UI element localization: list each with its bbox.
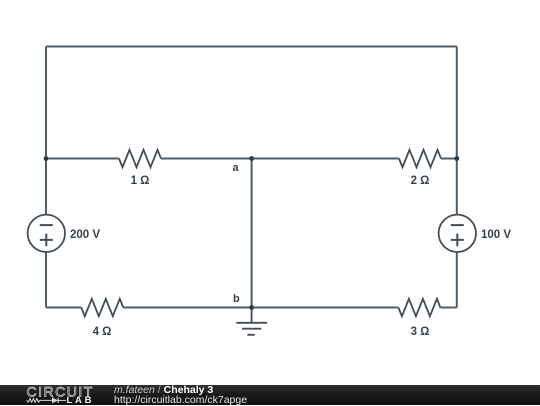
V2 plus sign	[451, 234, 464, 247]
svg-text:1 Ω: 1 Ω	[131, 175, 150, 187]
svg-text:4 Ω: 4 Ω	[93, 326, 112, 338]
wire bottom-right segment	[440, 307, 456, 309]
V2 minus sign	[451, 224, 464, 226]
resistor R2 2 Ohm	[399, 150, 441, 167]
wire right vertical lower	[456, 252, 458, 308]
CircuitLab logo resistor-diode symbol	[27, 398, 67, 403]
wire left vertical upper	[45, 47, 47, 215]
voltage source V1 circle	[28, 215, 65, 252]
junction dot right-middle	[454, 156, 459, 161]
svg-text:2 Ω: 2 Ω	[411, 175, 430, 187]
svg-text:200 V: 200 V	[70, 229, 100, 241]
ground symbol	[236, 308, 267, 335]
wire center vertical node a to node b	[251, 159, 253, 308]
wire left vertical lower	[45, 252, 47, 308]
resistor R1 1 Ohm	[119, 150, 161, 167]
V1 minus sign	[40, 224, 53, 226]
resistor R3 3 Ohm	[398, 299, 440, 316]
junction dot node b	[249, 305, 254, 310]
svg-text:a: a	[233, 162, 240, 174]
wire middle-left segment	[46, 158, 119, 160]
wire bottom-center segment	[123, 307, 398, 309]
svg-text:b: b	[233, 293, 240, 305]
wire right vertical upper	[456, 47, 458, 215]
voltage source V2 circle	[439, 215, 476, 252]
svg-text:3 Ω: 3 Ω	[411, 326, 430, 338]
wire middle-center segment	[161, 158, 399, 160]
footer bar	[0, 385, 540, 405]
svg-text:100 V: 100 V	[481, 229, 511, 241]
junction dot left-middle	[44, 156, 49, 161]
V1 plus sign	[40, 234, 53, 247]
wire top	[46, 46, 457, 48]
wire bottom-left segment	[46, 307, 81, 309]
junction dot node a	[249, 156, 254, 161]
wire middle-right segment	[441, 158, 457, 160]
svg-text:LAB: LAB	[67, 395, 95, 405]
resistor R4 4 Ohm	[81, 299, 123, 316]
